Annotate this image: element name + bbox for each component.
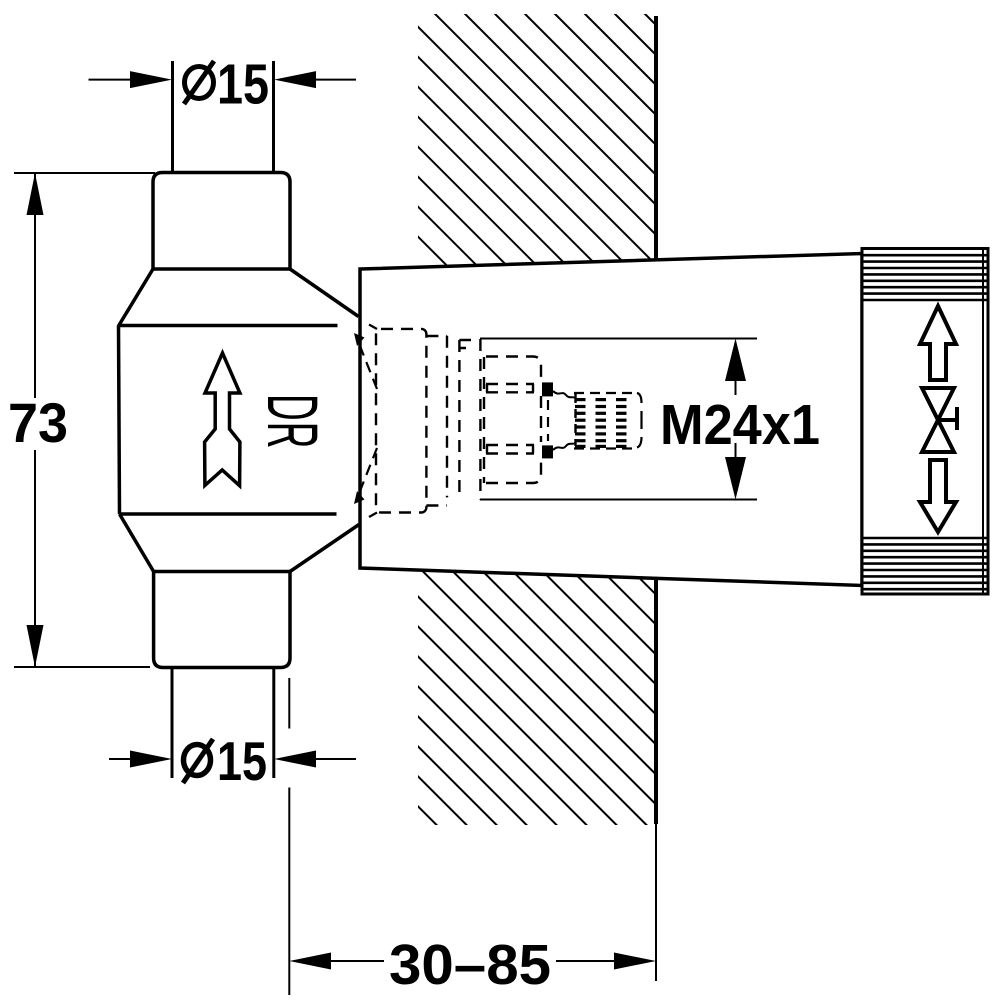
seal square bottom (542, 445, 553, 458)
cartridge mid right edge (540, 396, 542, 442)
dim dia15 bottom left arrow (109, 758, 136, 760)
dim dia15 bottom right arrow (274, 751, 316, 768)
cap right rim line (982, 250, 984, 593)
cartridge head bottom (486, 458, 541, 483)
svg-text:M24x1: M24x1 (660, 393, 820, 457)
spindle right cap dashes (637, 393, 642, 448)
valve lower cone left (120, 514, 154, 572)
cone corner dash bottom (369, 513, 377, 518)
wall finished-surface line (654, 16, 658, 824)
threaded spindle M24 (575, 394, 627, 448)
cap symbol: down arrow (920, 460, 956, 532)
wall section hatching (418, 14, 656, 825)
dim 30-85 left arrow (289, 953, 331, 970)
dim 73 arrow down (27, 625, 44, 667)
dim M24x1 extension bottom (480, 499, 757, 501)
svg-text:73: 73 (8, 391, 68, 454)
cartridge step top edge (426, 335, 447, 337)
valve lower cone right (290, 525, 359, 572)
sleeve body (tapered tube through wall) (360, 254, 862, 586)
hidden cartridge cone arrow bottom (358, 448, 377, 496)
dim M24x1 extension top (480, 338, 757, 340)
cartridge head top (486, 357, 541, 383)
svg-text:15: 15 (217, 730, 267, 792)
cartridge step bottom edge (426, 504, 447, 506)
svg-text:DR: DR (253, 394, 332, 449)
dim 30-85 extension left (288, 678, 290, 729)
dim 30-85 right arrow (614, 953, 656, 970)
cartridge bracket mark (459, 340, 471, 348)
dim 73 extension top (14, 172, 155, 174)
dim dia15 top right arrow (274, 71, 316, 88)
cartridge ring line 2 (458, 340, 460, 496)
valve hex left edge (119, 326, 120, 515)
svg-text:15: 15 (217, 53, 269, 117)
cartridge ring line 3 (479, 339, 481, 500)
flow direction arrow on valve body (205, 353, 240, 486)
cartridge ring line 1 (446, 336, 448, 498)
hidden cartridge cone arrow top (358, 341, 377, 389)
dim M24x1 arrow up (725, 339, 746, 382)
cartridge big dashed box (376, 329, 426, 513)
cap bottom knurl band (864, 538, 987, 589)
hidden cartridge outline group (376, 329, 541, 513)
cartridge groove bottom (486, 445, 534, 454)
dim 73 line upper (34, 173, 36, 398)
dim dia15 bottom label (184, 745, 211, 776)
cap symbol: valve bowtie (922, 388, 954, 452)
dim 73 extension bottom (14, 666, 150, 668)
spindle top and bottom dashed edges (574, 392, 638, 394)
dim dia15 top label (185, 67, 214, 99)
dim dia15 top left arrow (89, 79, 137, 81)
valve upper cone right (290, 269, 359, 317)
spindle link dashes (547, 400, 549, 441)
valve bottom pipe (171, 668, 174, 779)
cartridge head left edge (483, 357, 485, 483)
protection cap body (862, 249, 988, 595)
leader squiggle bottom (553, 443, 576, 450)
valve upper cone left (119, 269, 154, 326)
cartridge groove top (486, 384, 534, 392)
cap symbol: up arrow (920, 306, 956, 380)
valve hex bottom edge (120, 512, 337, 516)
svg-text:30–85: 30–85 (389, 933, 551, 997)
cap top knurl band (864, 255, 987, 300)
seal square top (542, 382, 553, 396)
valve bottom collar (154, 572, 290, 668)
leader squiggle top (553, 391, 576, 398)
dim 30-85 extension right (655, 824, 657, 981)
cone corner dash top (369, 325, 377, 330)
valve top collar (153, 173, 290, 270)
valve hex top edge (119, 324, 338, 328)
dim 73 arrow up (27, 173, 44, 215)
dim 73 line lower (34, 450, 36, 667)
valve top pipe (171, 61, 174, 173)
cap symbol: spindle tick (938, 407, 957, 430)
dim M24x1 arrow down (725, 457, 746, 500)
